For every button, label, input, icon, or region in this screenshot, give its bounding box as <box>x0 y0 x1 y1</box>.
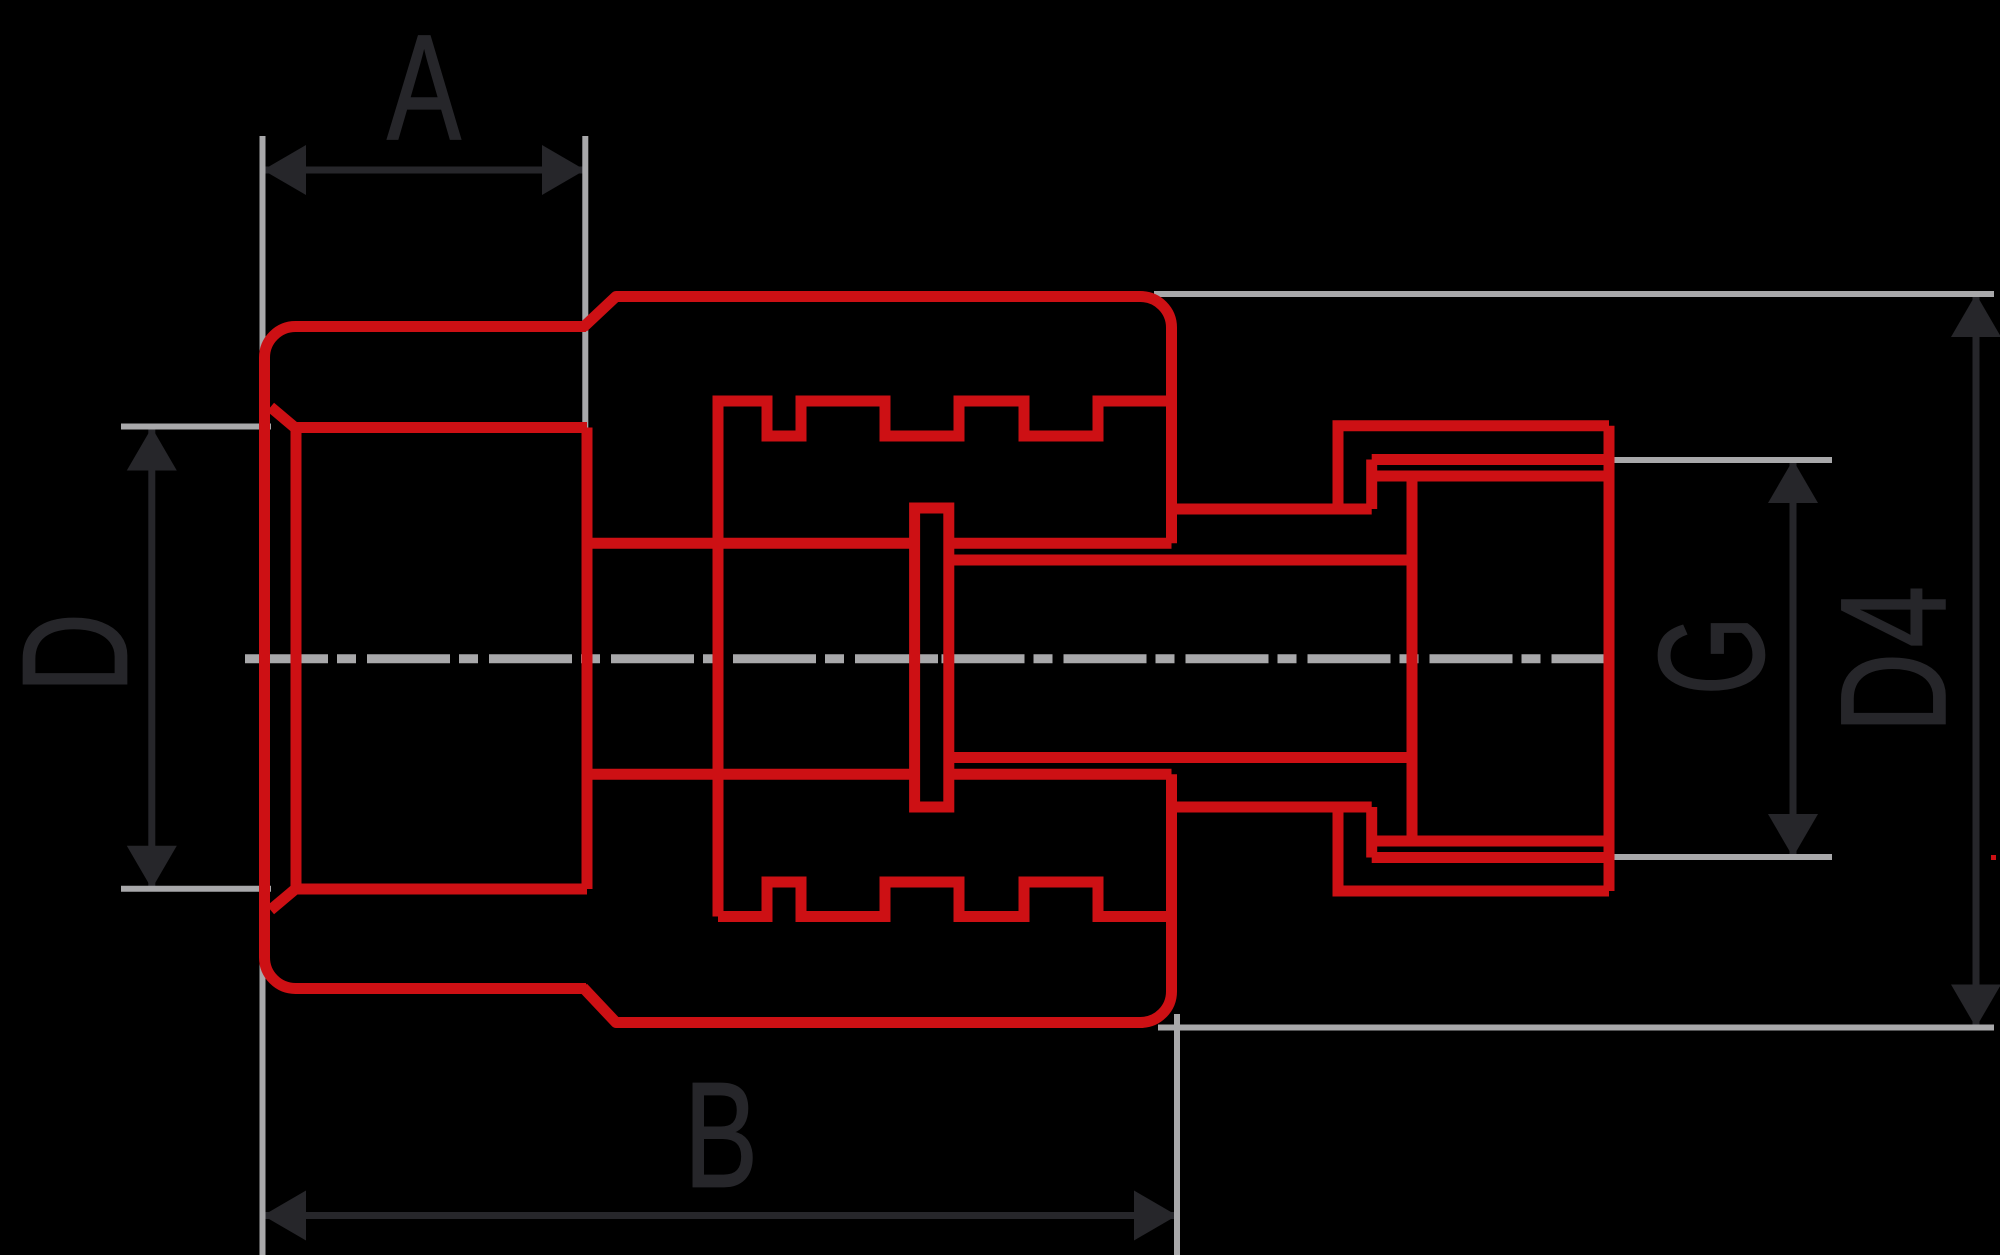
dimension G line <box>1790 460 1797 857</box>
thread crest top <box>1372 454 1609 465</box>
svg-text:A: A <box>387 4 461 171</box>
thread root top <box>1377 471 1609 482</box>
nut outline top <box>583 297 1172 544</box>
extension line D4 top <box>1154 291 1994 297</box>
centerline (dash-dot axis) <box>245 654 946 663</box>
insert body outer top <box>1333 420 1610 431</box>
svg-text:D4: D4 <box>1810 581 1977 733</box>
nut outline bottom <box>583 774 1172 1022</box>
dimension G top arrowhead <box>1768 460 1818 503</box>
extension line G bottom <box>1614 854 1832 860</box>
extension line D bottom <box>121 886 271 892</box>
dimension D bottom arrowhead <box>127 846 177 889</box>
insert tail outer bottom <box>949 752 1412 763</box>
dimension D4 bottom arrowhead <box>1951 985 2000 1028</box>
insert neck bottom <box>1177 802 1372 813</box>
insert body outer bottom <box>1333 886 1610 897</box>
extension line A right <box>582 136 588 428</box>
extension line A/B left <box>260 136 266 1255</box>
svg-text:G: G <box>1629 616 1796 695</box>
thread bore end face <box>1407 476 1418 841</box>
extension line B right <box>1174 1014 1180 1255</box>
thread crest bottom <box>1372 852 1609 863</box>
socket bore chamfer top <box>271 407 297 429</box>
socket bore bottom line <box>296 884 587 895</box>
dimension A line <box>263 167 585 174</box>
nut grip teeth top row <box>718 401 1166 917</box>
centerline right part <box>942 654 1612 663</box>
groove vertical bottom <box>1366 807 1377 858</box>
nut grip teeth bottom row <box>718 882 1166 917</box>
insert right face <box>1604 426 1615 891</box>
groove vertical top <box>1366 460 1377 510</box>
socket bore inner vertical <box>291 429 302 889</box>
socket outer profile <box>265 327 587 989</box>
insert flange left face top <box>1333 426 1344 509</box>
shelf bottom left segment <box>587 769 915 780</box>
insert flange left face bottom <box>1333 807 1344 891</box>
dimension G bottom arrowhead <box>1768 814 1818 857</box>
dimension D4 line <box>1973 294 1980 1028</box>
dimension D4 top arrowhead <box>1951 294 2000 337</box>
svg-text:D: D <box>0 613 158 693</box>
shelf top left segment <box>587 538 915 549</box>
socket bore top line <box>296 422 587 433</box>
shelf top right segment <box>949 538 1172 549</box>
shelf bottom right segment <box>949 769 1172 780</box>
svg-text:B: B <box>684 1051 758 1218</box>
socket mouth face vertical <box>582 428 593 890</box>
insert neck top <box>1177 504 1372 515</box>
dimension B left arrowhead <box>263 1191 306 1241</box>
dimension A right arrowhead <box>542 145 585 195</box>
stray red dot <box>1991 855 1996 860</box>
dimension A left arrowhead <box>263 145 306 195</box>
thread root bottom <box>1377 836 1609 847</box>
dimension B right arrowhead <box>1134 1191 1177 1241</box>
pipe stop rib <box>915 508 949 807</box>
dimension B line <box>263 1212 1177 1219</box>
dimension D top arrowhead <box>127 428 177 471</box>
extension line D4 bottom <box>1158 1025 1994 1031</box>
socket bore chamfer bottom <box>271 889 297 911</box>
insert tail outer top <box>949 555 1412 566</box>
extension line D top <box>121 424 271 430</box>
extension line G top <box>1614 457 1832 463</box>
dimension D line <box>148 428 155 889</box>
